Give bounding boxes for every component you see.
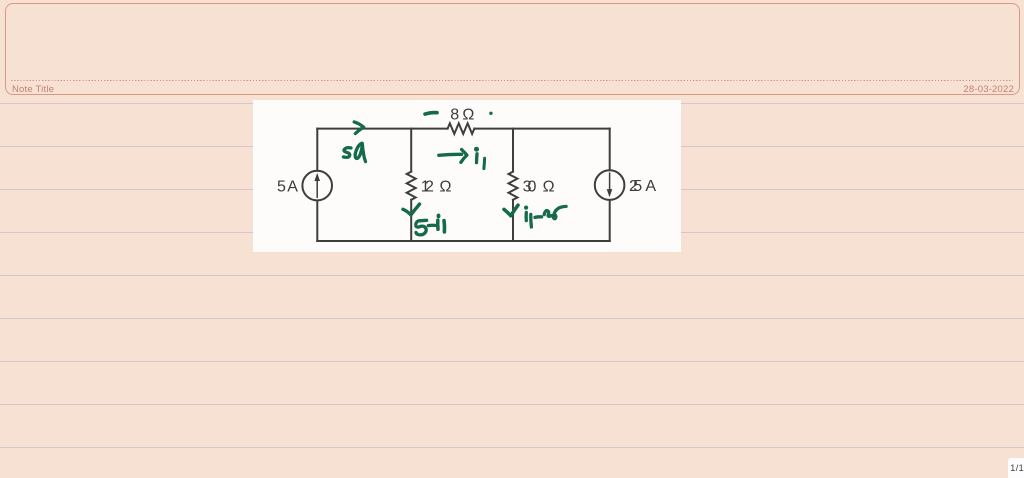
annotation dot right of 8 ohm <box>489 112 492 115</box>
annotation i1-25 subscript 1 <box>529 214 533 227</box>
annotation i1 dot <box>474 147 479 152</box>
wire right vertical lower <box>609 200 611 241</box>
wire middle-2 vertical lower <box>512 200 514 241</box>
svg-text:Ω: Ω <box>440 179 452 196</box>
annotation i1-25 handwritten 25 <box>544 206 566 218</box>
annotation i1-25 i dot <box>524 206 528 210</box>
note title header box <box>5 3 1020 95</box>
annotation i1-25 hyphen <box>535 215 542 219</box>
annotation checkmark under 12 ohm <box>403 204 420 215</box>
svg-text:A: A <box>645 178 656 195</box>
annotation 5-i1 i dot <box>437 214 441 219</box>
annotation i1 current arrow shaft <box>439 154 462 155</box>
wire left vertical lower <box>316 201 318 242</box>
wire middle-2 vertical upper <box>512 129 514 172</box>
annotation 5-i1 subscript 1 <box>442 221 446 232</box>
annotation 5A handwritten A <box>355 143 365 161</box>
wire top-left segment <box>317 128 447 130</box>
wire bottom <box>317 240 609 242</box>
current source I2 circle <box>595 170 625 200</box>
current source I1 arrow <box>314 173 320 198</box>
annotation 5-i1 handwritten 5 <box>416 220 427 235</box>
page indicator 1/1 <box>1008 458 1024 478</box>
wire middle-1 vertical upper <box>410 129 412 172</box>
annotation 5A handwritten s <box>343 148 351 158</box>
current source I1 circle <box>302 171 332 201</box>
svg-text:A: A <box>287 178 298 195</box>
ruled lines <box>0 103 1024 104</box>
resistor 8ohm zigzag <box>448 123 475 134</box>
wire middle-1 vertical lower <box>410 200 412 241</box>
svg-text:25: 25 <box>629 178 642 195</box>
annotation 5-i1 i stem <box>436 220 440 229</box>
wire top-right segment <box>474 128 609 130</box>
annotation minus sign near 8 ohm <box>425 113 437 115</box>
svg-text:12: 12 <box>421 179 434 196</box>
annotation 5-i1 hyphen <box>428 224 435 228</box>
svg-text:Ω: Ω <box>543 179 555 196</box>
svg-text:Ω: Ω <box>462 107 474 124</box>
annotation arrowhead on top-left wire <box>354 122 364 134</box>
annotation i1-25 i stem <box>525 212 528 220</box>
svg-text:8: 8 <box>450 107 459 124</box>
resistor 12ohm zigzag <box>407 172 416 200</box>
annotation checkmark under 30 ohm <box>504 205 518 216</box>
current source I2 arrow <box>607 172 613 197</box>
note title text <box>12 84 54 95</box>
svg-text:30: 30 <box>523 179 537 196</box>
resistor 30ohm zigzag <box>509 172 518 200</box>
wire right vertical upper <box>609 129 611 171</box>
white schematic panel <box>253 100 681 252</box>
annotation i1 subscript <box>482 158 486 168</box>
date text <box>963 84 1014 95</box>
svg-text:5: 5 <box>277 178 286 195</box>
dotted title underline <box>11 80 1013 81</box>
annotation i1 stem <box>475 154 479 163</box>
annotation i1 current arrow head <box>461 150 467 163</box>
wire left vertical upper <box>316 129 318 171</box>
